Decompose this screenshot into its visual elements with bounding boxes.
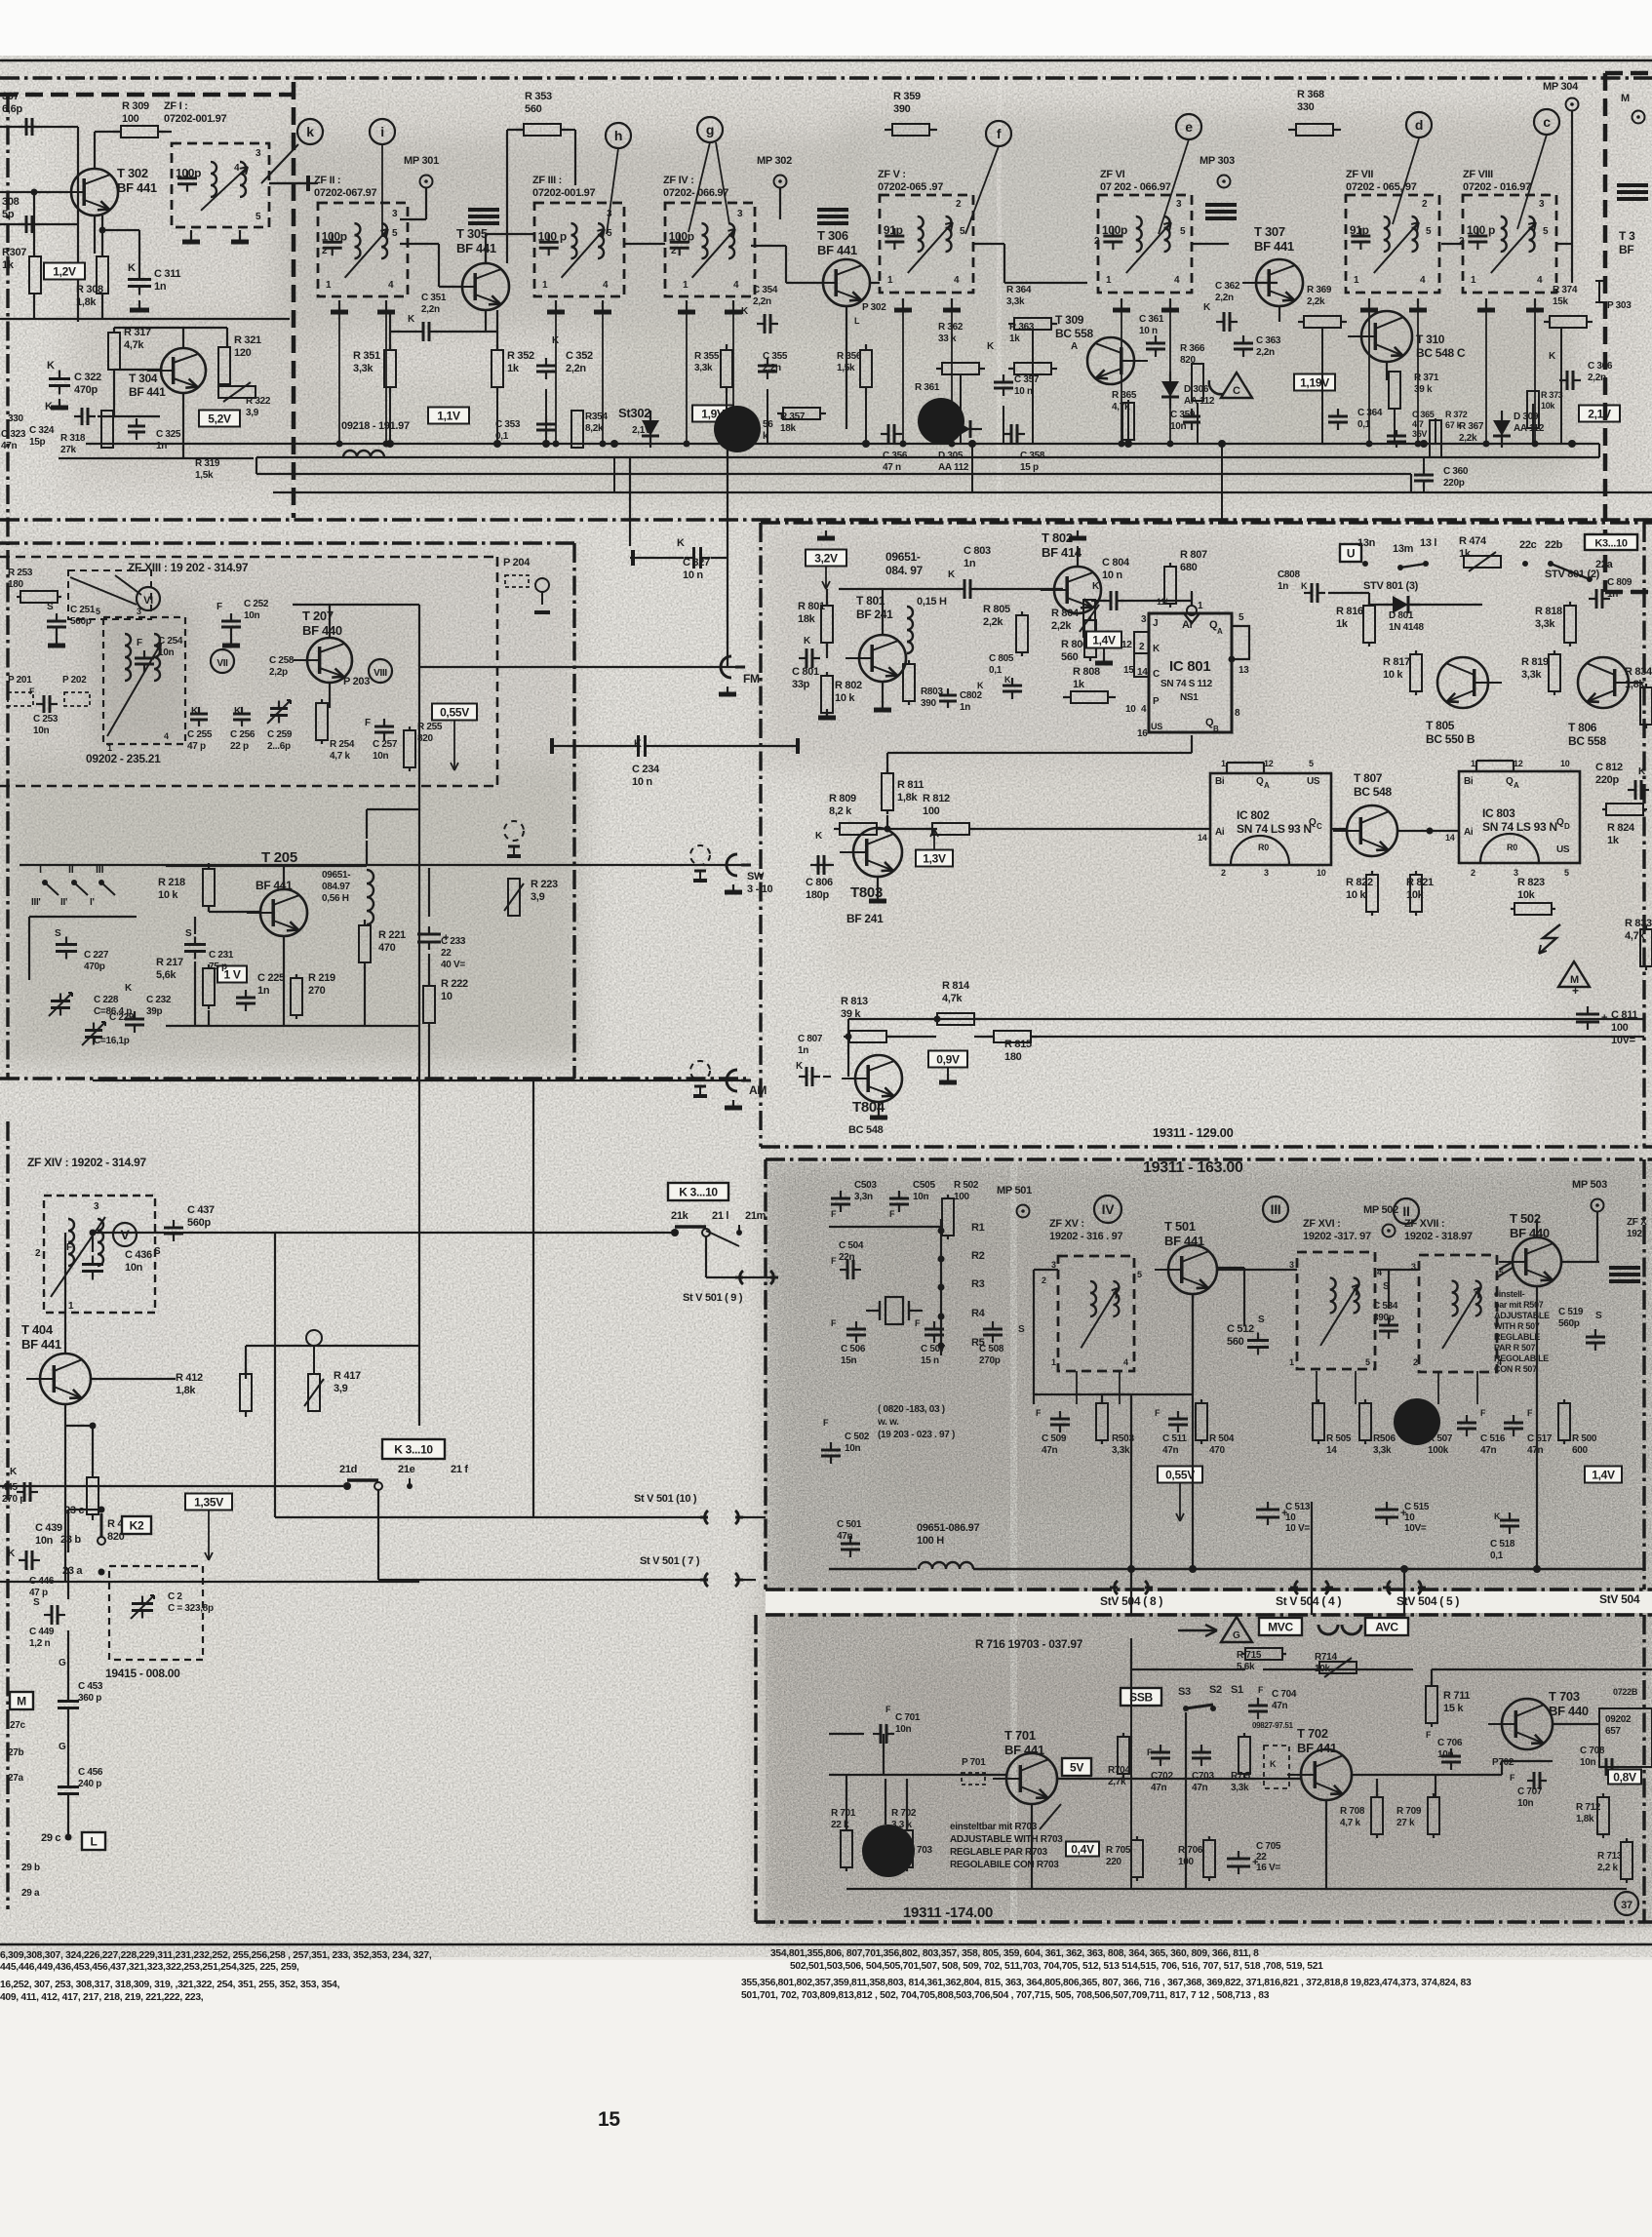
- svg-text:MP 301: MP 301: [404, 155, 439, 167]
- svg-text:0,1: 0,1: [989, 665, 1003, 676]
- svg-text:C 439: C 439: [35, 1522, 62, 1534]
- svg-text:8,2k: 8,2k: [585, 423, 604, 434]
- svg-text:5: 5: [1137, 1270, 1142, 1279]
- wire C234 line: [552, 745, 629, 747]
- wire P303 bracket: [1598, 281, 1600, 302]
- svg-text:10 k: 10 k: [158, 889, 178, 901]
- svg-text:C 502: C 502: [845, 1432, 870, 1442]
- svg-text:1k: 1k: [1336, 618, 1349, 630]
- svg-text:S: S: [47, 602, 54, 612]
- boxU: [1340, 544, 1361, 562]
- svg-text:100p: 100p: [322, 229, 347, 243]
- svg-text:47n: 47n: [1042, 1445, 1058, 1456]
- svg-text:R 309: R 309: [122, 100, 149, 112]
- svg-text:g: g: [706, 122, 714, 137]
- svg-text:47n: 47n: [1162, 1445, 1179, 1456]
- voltage 1,35V: [185, 1494, 232, 1511]
- svg-text:100: 100: [923, 805, 940, 817]
- svg-text:0,55V: 0,55V: [1165, 1469, 1195, 1482]
- svg-text:ZF XVII :: ZF XVII :: [1404, 1218, 1444, 1230]
- svg-text:07202-065 .97: 07202-065 .97: [878, 181, 943, 193]
- svg-text:P 202: P 202: [62, 675, 87, 686]
- svg-text:3,3k: 3,3k: [1006, 296, 1025, 307]
- svg-text:(19 203 - 023 . 97 ): (19 203 - 023 . 97 ): [878, 1430, 955, 1440]
- svg-text:4: 4: [1420, 275, 1426, 286]
- svg-text:1: 1: [1051, 1357, 1056, 1367]
- svg-text:ZF VIII: ZF VIII: [1463, 169, 1493, 180]
- IC 802: [1210, 773, 1331, 865]
- wire g arrows: [688, 142, 710, 232]
- frame block129 left: [759, 523, 762, 1147]
- svg-text:A: A: [1264, 781, 1270, 790]
- svg-text:C 354: C 354: [753, 285, 778, 295]
- svg-text:1n: 1n: [1278, 581, 1288, 592]
- svg-text:D 801: D 801: [1389, 610, 1414, 621]
- svg-text:15 k: 15 k: [1443, 1703, 1464, 1714]
- svg-text:2: 2: [1471, 868, 1475, 878]
- boxK3-10 right: [1585, 534, 1637, 550]
- svg-text:BC 550 B: BC 550 B: [1426, 732, 1475, 746]
- wire T703 line: [1553, 1723, 1599, 1725]
- svg-text:STV 801 (3): STV 801 (3): [1363, 580, 1419, 592]
- svg-text:0722B: 0722B: [1613, 1687, 1638, 1697]
- frame left-middle block bottom: [0, 1077, 746, 1079]
- node f: [986, 121, 1011, 146]
- arrow M jag: [1539, 924, 1560, 954]
- capacitor chassis right: [1617, 183, 1648, 187]
- svg-text:BC 548: BC 548: [848, 1124, 884, 1136]
- svg-text:445,446,449,436,453,456,437,32: 445,446,449,436,453,456,437,321,323,322,…: [0, 1962, 299, 1973]
- svg-text:15 n: 15 n: [921, 1355, 939, 1366]
- svg-text:R 366: R 366: [1180, 343, 1205, 354]
- svg-text:19202 - 316 . 97: 19202 - 316 . 97: [1049, 1231, 1123, 1242]
- svg-text:REGLABLE: REGLABLE: [1494, 1332, 1540, 1342]
- transistor T205: [260, 889, 307, 936]
- svg-text:13n: 13n: [1357, 537, 1376, 549]
- svg-text:1: 1: [1471, 759, 1475, 768]
- svg-text:3: 3: [1264, 868, 1269, 878]
- svg-text:G: G: [59, 1742, 66, 1752]
- svg-text:VII: VII: [216, 658, 228, 669]
- svg-text:09651-: 09651-: [322, 870, 350, 881]
- svg-text:3: 3: [1176, 199, 1182, 210]
- svg-text:S: S: [185, 928, 192, 939]
- frame top-left block dashed: [0, 93, 294, 98]
- svg-text:c: c: [1543, 114, 1551, 130]
- IF transformer ZF XV: [1058, 1256, 1134, 1371]
- svg-text:MP 302: MP 302: [757, 155, 792, 167]
- svg-text:F: F: [831, 1318, 837, 1328]
- svg-text:5,2V: 5,2V: [208, 412, 231, 426]
- wire T207 collector rail: [293, 604, 419, 606]
- svg-text:3,9: 3,9: [246, 408, 259, 418]
- svg-text:A: A: [1071, 341, 1078, 352]
- svg-text:R 802: R 802: [835, 680, 862, 691]
- svg-text:10n: 10n: [244, 610, 260, 621]
- svg-text:+: +: [1252, 1857, 1258, 1868]
- svg-text:0,9V: 0,9V: [936, 1053, 960, 1067]
- svg-text:22 p: 22 p: [230, 741, 249, 752]
- svg-text:R 254: R 254: [330, 739, 355, 750]
- node e: [1176, 114, 1201, 139]
- svg-text:BC 548: BC 548: [1354, 785, 1393, 799]
- svg-text:19415 - 008.00: 19415 - 008.00: [105, 1667, 180, 1680]
- svg-text:K: K: [1301, 581, 1308, 591]
- svg-text:K: K: [45, 401, 53, 412]
- svg-text:2: 2: [956, 199, 962, 210]
- svg-text:4,7k: 4,7k: [942, 993, 963, 1004]
- transistor T801: [859, 635, 906, 682]
- svg-text:K: K: [1549, 351, 1556, 362]
- svg-text:15 p: 15 p: [1020, 462, 1039, 473]
- svg-text:VIII: VIII: [374, 668, 387, 679]
- svg-text:P 701: P 701: [962, 1757, 986, 1768]
- svg-text:P 204: P 204: [503, 557, 531, 569]
- svg-text:R 814: R 814: [942, 980, 970, 992]
- svg-text:308: 308: [2, 196, 20, 208]
- wire IC803 top jumper: [1475, 761, 1477, 771]
- svg-text:BF 441: BF 441: [1297, 1741, 1337, 1755]
- svg-text:R4: R4: [971, 1308, 986, 1319]
- svg-text:T 310: T 310: [1416, 333, 1445, 346]
- wire stv501 right leads: [739, 1276, 773, 1278]
- svg-text:R 823: R 823: [1517, 877, 1545, 888]
- svg-text:0,15 H: 0,15 H: [917, 596, 947, 608]
- svg-text:C 437: C 437: [187, 1204, 215, 1216]
- svg-text:F: F: [831, 1209, 837, 1219]
- svg-text:WITH R 507: WITH R 507: [1494, 1321, 1540, 1331]
- wire bus3 top band: [256, 473, 1411, 475]
- wire T404 nets: [64, 1233, 66, 1354]
- svg-text:2,2n: 2,2n: [1215, 293, 1234, 303]
- ground ZF VIII: [1485, 298, 1487, 310]
- transistor T306: [823, 259, 870, 306]
- wire T205 rails: [166, 865, 367, 867]
- svg-text:R 833: R 833: [1625, 918, 1652, 929]
- svg-text:100 p: 100 p: [1467, 223, 1495, 237]
- svg-text:Bi: Bi: [1464, 776, 1474, 787]
- svg-text:AA 112: AA 112: [1184, 396, 1215, 407]
- svg-text:120: 120: [234, 347, 252, 359]
- svg-text:16: 16: [1137, 728, 1148, 739]
- svg-text:1,5k: 1,5k: [195, 470, 214, 481]
- svg-text:D: D: [1564, 822, 1570, 831]
- plug SW: [727, 854, 737, 876]
- svg-text:BF 440: BF 440: [302, 623, 342, 638]
- frame block129 right: [1642, 523, 1645, 1147]
- svg-text:C 353: C 353: [495, 419, 521, 430]
- svg-text:4,7k: 4,7k: [124, 339, 144, 351]
- svg-text:1: 1: [683, 280, 688, 291]
- svg-text:BF 441: BF 441: [21, 1337, 61, 1352]
- svg-text:07 202 - 066.97: 07 202 - 066.97: [1100, 181, 1171, 193]
- svg-text:1k: 1k: [1009, 334, 1020, 344]
- svg-text:BF 441: BF 441: [117, 180, 157, 195]
- wire block163 bus upper: [1034, 1393, 1131, 1395]
- wire right fragment border: [1605, 71, 1652, 76]
- svg-text:330: 330: [1297, 101, 1315, 113]
- svg-text:C 352: C 352: [566, 350, 593, 362]
- svg-text:F: F: [1527, 1408, 1533, 1418]
- svg-text:R 834: R 834: [1625, 666, 1652, 678]
- svg-text:V: V: [120, 1227, 130, 1242]
- svg-text:F: F: [1480, 1408, 1486, 1418]
- svg-text:C 516: C 516: [1480, 1433, 1506, 1444]
- svg-text:10: 10: [1560, 759, 1570, 768]
- node IV: [1094, 1196, 1121, 1223]
- svg-text:360 p: 360 p: [78, 1693, 101, 1704]
- svg-text:180: 180: [8, 579, 24, 590]
- wire 174 left drop: [883, 1734, 885, 1775]
- wire to StV501-9: [705, 1236, 707, 1277]
- frame T207 inner dashed top: [0, 556, 497, 559]
- svg-text:C 361: C 361: [1139, 314, 1164, 325]
- svg-text:91p: 91p: [884, 223, 903, 237]
- svg-text:47n: 47n: [1151, 1783, 1167, 1793]
- svg-text:15: 15: [1123, 665, 1134, 676]
- svg-text:BF 441: BF 441: [256, 879, 293, 892]
- svg-text:1n: 1n: [154, 281, 167, 293]
- svg-text:33 k: 33 k: [938, 334, 957, 344]
- svg-text:1,35V: 1,35V: [194, 1496, 223, 1510]
- svg-text:SSB: SSB: [1129, 1691, 1153, 1705]
- svg-text:4: 4: [164, 731, 169, 741]
- svg-text:II': II': [60, 897, 67, 908]
- svg-text:B: B: [1213, 725, 1219, 733]
- svg-text:C 701: C 701: [895, 1712, 921, 1723]
- svg-text:R 716 19703 - 037.97: R 716 19703 - 037.97: [975, 1637, 1083, 1651]
- voltage 1V: [217, 966, 247, 983]
- svg-text:II: II: [1402, 1203, 1409, 1219]
- svg-text:D 305: D 305: [938, 451, 964, 461]
- wire left page dash-dot border: [6, 93, 9, 1078]
- svg-text:22: 22: [441, 948, 452, 959]
- node k: [297, 119, 323, 144]
- svg-text:10: 10: [1125, 704, 1136, 715]
- voltage 1,1V: [428, 408, 469, 424]
- svg-text:2,2n: 2,2n: [1256, 347, 1275, 358]
- wire T205 feed: [418, 683, 420, 770]
- svg-text:h: h: [614, 128, 622, 143]
- svg-text:5: 5: [1180, 226, 1186, 237]
- svg-text:R 353: R 353: [525, 91, 552, 102]
- svg-text:27a: 27a: [8, 1773, 24, 1784]
- svg-text:8: 8: [1235, 708, 1240, 719]
- svg-text:4: 4: [1174, 275, 1180, 286]
- voltage 1,2V: [44, 263, 85, 280]
- svg-text:22c: 22c: [1519, 539, 1537, 551]
- svg-text:St V 501 ( 9 ): St V 501 ( 9 ): [683, 1292, 743, 1304]
- svg-text:R 824: R 824: [1607, 822, 1635, 834]
- svg-text:1: 1: [326, 280, 332, 291]
- scan fold crease: [1010, 1162, 1017, 1926]
- svg-text:C 513: C 513: [1285, 1502, 1311, 1512]
- svg-text:A: A: [1217, 627, 1223, 636]
- svg-text:16,252, 307, 253, 308,317,: 16,252, 307, 253, 308,317, 318,309, 319,…: [0, 1980, 340, 1990]
- svg-text:100: 100: [122, 113, 139, 125]
- svg-text:1,3V: 1,3V: [923, 852, 946, 866]
- svg-text:100: 100: [954, 1192, 970, 1202]
- IF transformer ZF XVI: [1297, 1252, 1375, 1369]
- voltage 1,4V: [1086, 632, 1121, 648]
- wire top rule: [0, 59, 1652, 62]
- svg-text:P 302: P 302: [862, 302, 886, 313]
- capacitor chassis blocks 2: [817, 208, 848, 212]
- svg-text:BC 548 C: BC 548 C: [1416, 346, 1466, 360]
- svg-text:K: K: [47, 360, 55, 372]
- voltage 1,19V: [1294, 374, 1335, 391]
- svg-text:2,2k: 2,2k: [983, 616, 1003, 628]
- svg-text:1,19V: 1,19V: [1300, 376, 1329, 390]
- frame StV band lower: [766, 1613, 1652, 1616]
- svg-text:R 711: R 711: [1443, 1690, 1470, 1702]
- svg-text:C 256: C 256: [230, 729, 256, 740]
- svg-text:R 352: R 352: [507, 350, 534, 362]
- svg-text:R 701: R 701: [831, 1808, 856, 1819]
- svg-text:09218 - 191.97: 09218 - 191.97: [341, 420, 410, 432]
- svg-text:T 805: T 805: [1426, 719, 1455, 732]
- svg-text:C: C: [1317, 822, 1322, 831]
- svg-text:BF 241: BF 241: [846, 912, 884, 925]
- wire k pointer: [261, 144, 298, 183]
- svg-text:37: 37: [1621, 1900, 1632, 1911]
- svg-text:C 812: C 812: [1595, 762, 1623, 773]
- wire mainbus163: [829, 1568, 917, 1570]
- svg-text:St V 504 ( 4 ): St V 504 ( 4 ): [1276, 1594, 1341, 1608]
- svg-text:1k: 1k: [1073, 679, 1085, 690]
- svg-text:C703: C703: [1192, 1771, 1214, 1782]
- svg-text:3: 3: [137, 607, 141, 616]
- svg-text:10n: 10n: [1517, 1798, 1534, 1809]
- svg-text:354,801,355,806, 807,701,356,8: 354,801,355,806, 807,701,356,802, 803,35…: [770, 1948, 1259, 1959]
- svg-text:47n: 47n: [1480, 1445, 1497, 1456]
- svg-text:R 223: R 223: [531, 879, 558, 890]
- frame block174 right: [1642, 1615, 1645, 1922]
- svg-text:3,3k: 3,3k: [353, 363, 374, 374]
- svg-text:R 222: R 222: [441, 978, 468, 990]
- svg-text:1N 4148: 1N 4148: [1389, 622, 1424, 633]
- svg-text:C 456: C 456: [78, 1767, 103, 1778]
- svg-text:0,56 H: 0,56 H: [322, 893, 349, 904]
- svg-text:IC 803: IC 803: [1482, 806, 1515, 820]
- connector StV504-5: [1388, 1581, 1391, 1594]
- ground ZF I: [190, 230, 192, 242]
- svg-text:R 369: R 369: [1307, 285, 1332, 295]
- svg-text:19311 - 129.00: 19311 - 129.00: [1153, 1125, 1234, 1140]
- svg-text:0,4V: 0,4V: [1071, 1843, 1094, 1857]
- svg-text:C 360: C 360: [1443, 466, 1469, 477]
- connector P204: [505, 575, 529, 587]
- svg-text:3,3k: 3,3k: [1373, 1445, 1392, 1456]
- svg-text:1: 1: [1106, 275, 1112, 286]
- svg-text:ADJUSTABLE WITH R703: ADJUSTABLE WITH R703: [950, 1834, 1063, 1845]
- svg-text:09651-086.97: 09651-086.97: [917, 1522, 979, 1534]
- svg-text:21d: 21d: [339, 1464, 357, 1475]
- svg-text:10 k: 10 k: [1383, 669, 1403, 681]
- svg-text:M: M: [17, 1695, 26, 1708]
- voltage 1,9V: [692, 406, 733, 422]
- svg-text:K: K: [128, 262, 136, 274]
- svg-text:14: 14: [1445, 833, 1455, 843]
- IF transformer ZF I: [172, 143, 269, 227]
- svg-text:K: K: [1203, 302, 1211, 313]
- svg-text:C 453: C 453: [78, 1681, 103, 1692]
- svg-text:2...6p: 2...6p: [267, 741, 291, 752]
- ground ZF VI: [1121, 298, 1122, 310]
- IF transformer ZF II: [318, 203, 408, 296]
- svg-text:21m: 21m: [745, 1210, 767, 1222]
- svg-text:1,2V: 1,2V: [53, 265, 76, 279]
- wire C327 right lead: [711, 557, 728, 559]
- svg-text:P702: P702: [1492, 1757, 1514, 1768]
- svg-text:Bi: Bi: [1215, 776, 1225, 787]
- svg-text:R 818: R 818: [1535, 606, 1562, 617]
- svg-text:R7 5: R7 5: [1231, 1771, 1251, 1782]
- diode D801: [1393, 596, 1408, 613]
- svg-text:F: F: [216, 602, 222, 612]
- IF transformer ZF IV: [665, 203, 755, 296]
- svg-text:C=16,1p: C=16,1p: [94, 1036, 130, 1046]
- svg-text:C 449: C 449: [29, 1627, 55, 1637]
- capacitor chassis blocks 3: [1205, 203, 1237, 207]
- svg-text:2: 2: [35, 1248, 41, 1259]
- svg-text:3,3k: 3,3k: [1231, 1783, 1249, 1793]
- connector StV501-9: [740, 1271, 743, 1284]
- junction dots topband bus: [386, 440, 394, 448]
- svg-text:ZF V :: ZF V :: [878, 169, 906, 180]
- svg-text:R 365: R 365: [1112, 390, 1137, 401]
- IF transformer ZF XIV: [44, 1196, 155, 1313]
- svg-text:St V 501 ( 7 ): St V 501 ( 7 ): [640, 1555, 700, 1567]
- svg-text:R 816: R 816: [1336, 606, 1363, 617]
- trimmer C2 box: [109, 1566, 203, 1660]
- svg-text:10n: 10n: [845, 1443, 861, 1454]
- svg-text:C: C: [1153, 669, 1160, 680]
- svg-text:5V: 5V: [1070, 1761, 1083, 1775]
- wire T304 area: [114, 327, 227, 329]
- svg-text:AVC: AVC: [1375, 1621, 1398, 1634]
- svg-text:III': III': [31, 897, 41, 908]
- svg-text:NS1: NS1: [1180, 692, 1199, 703]
- svg-text:5: 5: [1239, 612, 1244, 623]
- svg-text:C 706: C 706: [1437, 1738, 1463, 1748]
- svg-text:F: F: [1426, 1730, 1432, 1740]
- svg-text:5: 5: [1564, 868, 1569, 878]
- wire c arrow: [1517, 135, 1547, 229]
- svg-text:09651-: 09651-: [885, 550, 921, 564]
- voltage 2,1V: [1579, 406, 1620, 422]
- wire SW line: [20, 864, 743, 866]
- connector hooks AVC: [1318, 1625, 1338, 1634]
- connector StV504-8: [1115, 1581, 1118, 1594]
- svg-text:R 813: R 813: [841, 996, 868, 1007]
- svg-text:S: S: [1595, 1311, 1602, 1321]
- svg-text:K2: K2: [130, 1519, 144, 1533]
- svg-text:0,55V: 0,55V: [440, 706, 469, 720]
- svg-text:C 803: C 803: [964, 545, 991, 557]
- node 37: [1615, 1892, 1638, 1915]
- svg-text:S1: S1: [1231, 1684, 1243, 1696]
- svg-text:F: F: [29, 687, 35, 696]
- svg-text:IC 802: IC 802: [1237, 808, 1270, 822]
- svg-text:FM: FM: [743, 672, 760, 686]
- svg-text:S: S: [55, 928, 61, 939]
- svg-text:07202 - 016.97: 07202 - 016.97: [1463, 181, 1531, 193]
- svg-text:BF 441: BF 441: [456, 241, 496, 255]
- svg-text:1k: 1k: [507, 363, 520, 374]
- node VII: [211, 649, 234, 673]
- svg-text:10 V=: 10 V=: [1285, 1523, 1310, 1534]
